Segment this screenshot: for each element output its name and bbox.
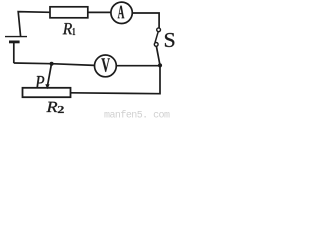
- battery cell long positive plate: [5, 36, 27, 38]
- junction node voltmeter to right rail: [158, 63, 162, 67]
- label R1 letter R: [63, 23, 72, 34]
- wire battery positive up to top bus toward R1: [18, 12, 50, 37]
- wire battery negative down: [13, 42, 15, 63]
- battery cell short negative plate: [9, 41, 20, 44]
- wire R1 to ammeter: [88, 11, 111, 13]
- label R1 subscript 1: [73, 28, 76, 35]
- resistor R1 body: [50, 7, 88, 18]
- junction node at wiper tap: [50, 62, 54, 66]
- voltmeter letter V: [101, 58, 110, 72]
- voltmeter circle: [95, 55, 117, 77]
- ammeter circle: [111, 2, 132, 23]
- wire right rail down and bottom run to rheostat R2: [71, 65, 161, 93]
- switch lever: [155, 32, 158, 43]
- wire voltmeter right terminal to junction: [116, 65, 160, 67]
- label S at switch: [165, 33, 174, 47]
- wire wiper tap from junction down to arrow: [48, 64, 52, 85]
- rheostat R2 body: [23, 88, 71, 97]
- switch bottom contact circle: [154, 43, 158, 47]
- label R2 letter R: [46, 102, 57, 112]
- wiper arrowhead: [45, 84, 49, 89]
- svg-text:manfen5. com: manfen5. com: [104, 110, 170, 120]
- ammeter letter A: [118, 6, 125, 19]
- wire ammeter to top-right corner down to switch: [132, 13, 159, 28]
- switch top contact circle: [157, 28, 161, 32]
- label R2 subscript 2: [58, 106, 64, 113]
- wire switch bottom to junction: [156, 46, 160, 65]
- label P at wiper: [35, 76, 44, 88]
- wire bottom bus from battery to voltmeter: [14, 63, 95, 65]
